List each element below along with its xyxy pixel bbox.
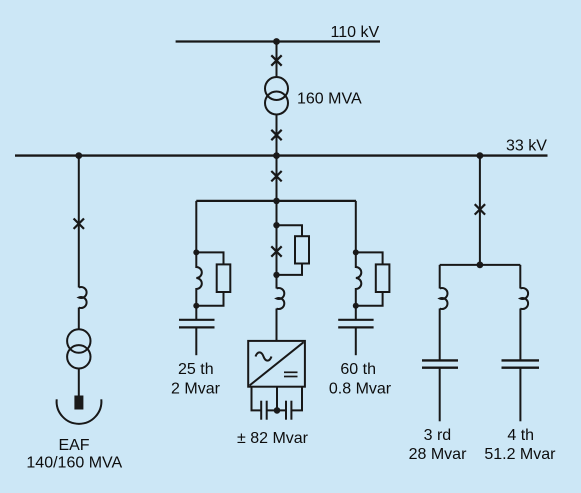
wire: header down 4th filter	[519, 265, 521, 289]
wire: bypass to resistor R2	[277, 225, 303, 236]
wire: 25th filter tail	[195, 306, 197, 320]
node: junction on 110 kV bus	[273, 38, 280, 45]
inductor L5 (3rd filter reactor)	[440, 288, 448, 309]
svg-text:EAF: EAF	[58, 437, 89, 454]
wire: 33 kV bus down capacitor bank feeder	[479, 156, 481, 265]
capacitor C6 (4th filter)	[502, 360, 540, 367]
wire: 33 kV bus down to SVC sub-bus	[276, 156, 278, 201]
node: 60th filter top junction	[353, 249, 359, 255]
svg-text:4 th: 4 th	[507, 427, 534, 444]
transformer T2 (EAF transformer)	[67, 329, 90, 352]
wire: 33 kV bus down EAF feeder	[78, 156, 80, 288]
breaker X3 (EAF feeder)	[74, 219, 84, 229]
wire: converter centre leg	[276, 387, 278, 411]
node A: top split of TCR damping network	[273, 222, 279, 228]
resistor R3 (60th filter damping)	[376, 264, 390, 292]
wire: reactor to capacitor	[439, 309, 441, 361]
svg-text:3 rd: 3 rd	[424, 427, 452, 444]
transformer T1 160 MVA	[265, 77, 288, 100]
node: 25th filter top junction	[193, 249, 199, 255]
wire: 4th filter tail	[519, 368, 521, 422]
inductor L1 (EAF series reactor)	[79, 287, 87, 308]
node: SVC feeder junction on 33 kV bus	[273, 152, 280, 159]
bus 33 kV	[15, 154, 548, 156]
wire: sub-bus down 60th filter	[355, 201, 357, 253]
wire: sub-bus to TCR branch split	[276, 201, 278, 225]
capacitor C1 (DC link, left)	[261, 401, 267, 420]
breaker X4 (SVC feeder)	[271, 171, 281, 181]
EAF electrode	[74, 396, 83, 410]
wire: split header	[440, 264, 521, 266]
wire: 3rd filter tail	[439, 368, 441, 422]
node: 60th filter bottom junction	[353, 303, 359, 309]
wire: inductor to converter	[276, 309, 278, 341]
SVC sub-bus	[196, 200, 356, 202]
wire: 110 kV bus to transformer T1	[276, 42, 278, 78]
resistor R1 (25th filter damping)	[217, 264, 231, 292]
bus 110 kV	[176, 40, 380, 42]
breaker X2 (33 kV side of T1)	[271, 130, 281, 140]
node: capacitor bank feeder junction on 33 kV bus	[477, 152, 484, 159]
wire: resistor R1 to bottom junction	[196, 292, 223, 306]
svg-text:110 kV: 110 kV	[331, 24, 380, 41]
EAF furnace arc	[57, 399, 102, 424]
wire: EAF transformer to electrode	[78, 369, 80, 396]
inductor L6 (4th filter reactor)	[520, 288, 528, 309]
node: 25th filter bottom junction	[193, 303, 199, 309]
inductor L4 (60th filter reactor)	[356, 252, 362, 305]
wire: converter right leg to DC capacitors	[291, 387, 302, 411]
inductor L3 (25th filter reactor)	[196, 252, 202, 305]
wire: transformer T1 to 33 kV bus	[276, 115, 278, 156]
wire: reactor to EAF transformer	[78, 308, 80, 330]
resistor R2 (damping)	[295, 236, 309, 263]
wire: to resistor R1	[196, 252, 223, 264]
converter U1 (STATCOM AC/DC)	[248, 341, 305, 387]
svg-text:140/160 MVA: 140/160 MVA	[26, 454, 122, 471]
node B: bottom merge of TCR damping network	[273, 272, 279, 278]
svg-text:25 th: 25 th	[178, 361, 214, 378]
wire: DC midpoint	[267, 409, 286, 411]
wire: reactor to capacitor	[519, 309, 521, 361]
breaker X5 (in TCR branch)	[271, 246, 281, 256]
capacitor C5 (3rd filter)	[422, 360, 458, 367]
capacitor C4 (60th filter)	[338, 320, 373, 328]
svg-text:2 Mvar: 2 Mvar	[171, 380, 221, 397]
node: DC midpoint junction	[274, 407, 281, 414]
svg-text:28 Mvar: 28 Mvar	[409, 446, 467, 463]
svg-text:0.8 Mvar: 0.8 Mvar	[329, 380, 392, 397]
svg-text:160 MVA: 160 MVA	[297, 90, 362, 107]
node: junction on SVC sub-bus	[273, 198, 280, 205]
breaker X1 (110 kV side)	[271, 55, 281, 65]
svg-text:33 kV: 33 kV	[506, 138, 547, 155]
wire: to resistor R3	[356, 252, 383, 264]
svg-text:60 th: 60 th	[340, 361, 376, 378]
capacitor C2 (DC link, right)	[286, 401, 291, 420]
wire: resistor R2 to merge node	[277, 264, 303, 275]
wire: converter left leg to DC capacitors	[252, 387, 262, 411]
svg-text:51.2 Mvar: 51.2 Mvar	[484, 446, 556, 463]
node: EAF feeder junction on 33 kV bus	[75, 152, 82, 159]
wire: resistor R3 to bottom junction	[356, 292, 383, 306]
wire: header down 3rd filter	[439, 265, 441, 289]
wire: through TCR branch	[276, 225, 278, 275]
wire: node B to inductor	[276, 275, 278, 289]
wire: 60th filter tail	[355, 306, 357, 320]
wire: sub-bus down 25th filter	[195, 201, 197, 253]
breaker X6 (capacitor bank feeder)	[475, 204, 485, 214]
capacitor C3 (25th filter)	[179, 320, 215, 328]
node: capacitor bank split junction	[477, 262, 484, 269]
svg-text:± 82 Mvar: ± 82 Mvar	[237, 430, 309, 447]
inductor L2 (converter reactor)	[277, 288, 285, 309]
